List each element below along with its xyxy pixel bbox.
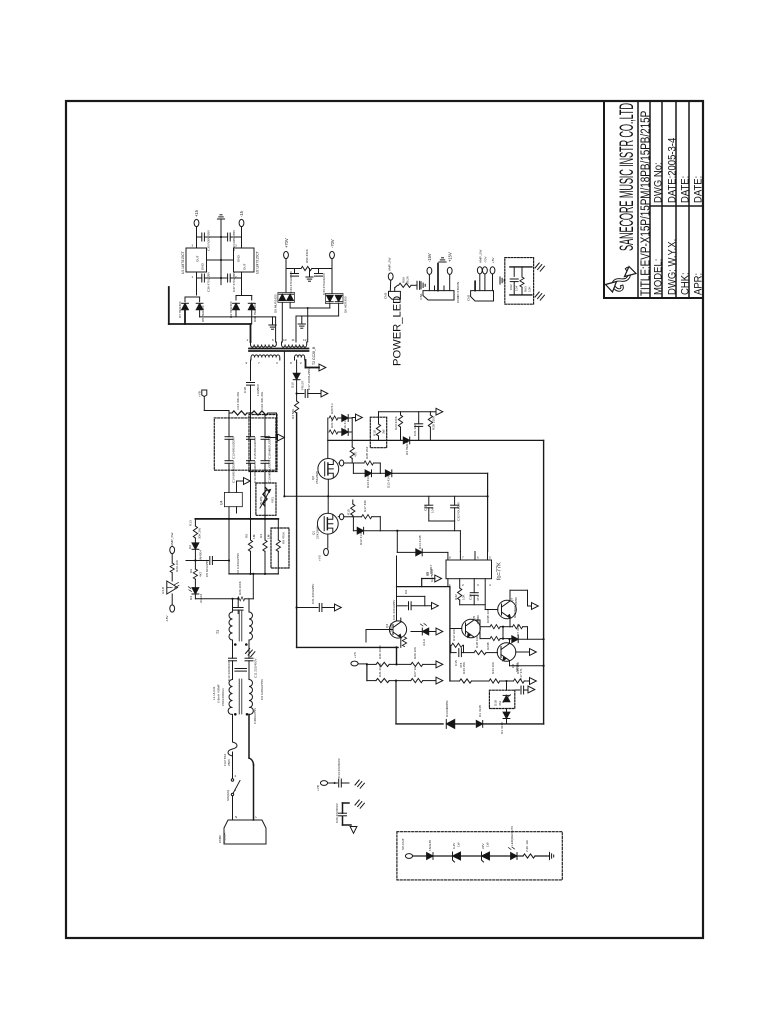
svg-text:0.68U/275V: 0.68U/275V [253, 707, 257, 724]
title block [604, 101, 703, 298]
resistor R40 [523, 854, 535, 858]
logo [606, 267, 637, 293]
wire D14 row [397, 551, 415, 553]
capacitor C21Q [397, 605, 408, 607]
svg-text:fo=77K: fo=77K [497, 562, 503, 580]
ground [550, 852, 554, 859]
svg-text:470: 470 [354, 452, 358, 457]
diode D13 [352, 463, 354, 473]
wire [204, 277, 227, 279]
svg-text:250V: 250V [227, 758, 231, 766]
chain 3 [450, 680, 459, 682]
wire thick secondary [169, 287, 251, 342]
diode D12B [380, 472, 385, 474]
capacitor C21 [418, 412, 420, 424]
svg-text:U1 LM7815CT: U1 LM7815CT [181, 250, 185, 274]
capacitor C9 [235, 669, 246, 672]
wire C17 branch [297, 393, 304, 395]
svg-text:D12 4148: D12 4148 [387, 474, 391, 488]
net arrow [244, 478, 251, 485]
svg-text:R8 470K: R8 470K [282, 531, 286, 544]
svg-text:APR:: APR: [693, 273, 705, 295]
wire Q4 emitter [400, 638, 402, 648]
wire +70 rail [285, 259, 287, 293]
gate node oval [339, 514, 343, 520]
dashed box R8 [271, 528, 289, 568]
svg-text:R26 100K: R26 100K [238, 580, 242, 595]
rectifier D9 [236, 295, 252, 297]
svg-text:C62: C62 [509, 284, 513, 290]
capacitor C17B [515, 689, 520, 691]
net arrow [530, 678, 537, 685]
svg-text:U4: U4 [220, 500, 224, 505]
svg-text:C18 MBSU/200V: C18 MBSU/200V [268, 435, 272, 459]
svg-text:N: N [235, 815, 237, 819]
wire D6 legs [329, 304, 331, 309]
capacitor C62 [510, 279, 518, 282]
ground chassis 2 [355, 800, 364, 808]
net arrow [436, 408, 443, 415]
svg-text:R1B 10K: R1B 10K [475, 635, 479, 648]
resistor R28 [402, 637, 406, 647]
wire pin2 [394, 288, 396, 292]
wire diode bottoms [199, 310, 201, 317]
resistor R50 [301, 266, 312, 270]
capacitor C19 [261, 461, 269, 464]
svg-text:C1B: C1B [243, 387, 247, 393]
svg-text:R16 30K 2W: R16 30K 2W [260, 392, 264, 410]
resistor R12 parallel [450, 645, 452, 652]
svg-text:D9B HER304: D9B HER304 [253, 303, 257, 322]
wire Q7 collector [509, 590, 511, 601]
svg-text:4: 4 [489, 583, 491, 587]
wire D10 chain [296, 360, 298, 373]
wire [204, 236, 221, 238]
svg-text:D7 4148: D7 4148 [516, 624, 520, 636]
svg-text:MODEL:: MODEL: [653, 259, 665, 295]
terminal +70V [483, 267, 488, 274]
terminal +5V [490, 267, 495, 274]
svg-text:DATE:2005-3-4: DATE:2005-3-4 [667, 138, 679, 203]
wire [460, 604, 486, 606]
svg-text:D6 HER303: D6 HER303 [344, 296, 348, 313]
svg-text:CN1: CN1 [419, 293, 423, 299]
resistor R24B [480, 638, 490, 640]
svg-text:R20 5.1: R20 5.1 [330, 403, 334, 414]
svg-text:C21 102: C21 102 [413, 424, 417, 436]
gate node oval [339, 460, 343, 466]
wire [328, 782, 338, 784]
resistor R31 [376, 679, 389, 683]
capacitor C15 [247, 437, 255, 440]
svg-text:3: 3 [477, 583, 479, 587]
svg-text:+VB: +VB [198, 391, 202, 397]
svg-text:2.2K 1W: 2.2K 1W [525, 840, 529, 852]
bus mid [195, 518, 278, 520]
wire [196, 227, 198, 248]
capacitor C13B [339, 779, 342, 787]
resistor R2B [429, 412, 431, 415]
svg-text:C17 1000U/35V: C17 1000U/35V [307, 367, 311, 390]
wire sec to C1B [250, 360, 252, 381]
svg-text:C14 680U/200V: C14 680U/200V [232, 460, 236, 483]
diode D17 [338, 431, 342, 433]
wire U4 pin2 arrow [236, 481, 238, 492]
svg-text:30K 2W: 30K 2W [198, 528, 202, 539]
svg-text:1M: 1M [267, 534, 271, 539]
svg-text:CN50: CN50 [218, 835, 222, 843]
svg-text:56.2K: 56.2K [406, 275, 410, 284]
svg-text:GND: GND [237, 254, 241, 262]
diode D1C [506, 709, 508, 713]
bus drain row [328, 439, 403, 441]
svg-text:-70V: -70V [330, 239, 335, 248]
capacitor C36 [202, 274, 205, 282]
ground [309, 269, 311, 278]
svg-text:CHK:: CHK: [680, 272, 692, 295]
svg-text:R32: R32 [454, 594, 458, 600]
svg-text:D8 HER304: D8 HER304 [201, 305, 205, 322]
svg-text:1N4148: 1N4148 [428, 840, 432, 851]
svg-text:S8550: S8550 [476, 615, 480, 624]
resistor R23B [490, 625, 500, 629]
svg-text:D5 MUR1620: D5 MUR1620 [274, 294, 278, 313]
svg-text:R9: R9 [189, 569, 193, 573]
svg-text:C1B: C1B [424, 505, 428, 511]
T2 top winding B [282, 342, 307, 347]
svg-text:R2B 2K2: R2B 2K2 [365, 446, 369, 459]
svg-text:+VB: +VB [316, 785, 320, 791]
resistor R16 gate pulldown [351, 440, 353, 447]
wire [411, 284, 416, 286]
wire Q4 collector chain [396, 556, 398, 621]
diode D11 [446, 719, 454, 728]
capacitor C1B [425, 505, 433, 508]
wire Q1 gate row [338, 516, 339, 518]
Q2 gate ladder [327, 418, 329, 459]
wire chain rows [358, 663, 367, 665]
svg-text:CN2: CN2 [467, 295, 471, 301]
capacitor C26 [343, 803, 352, 825]
wire U1 gnd to mid [207, 259, 222, 261]
svg-text:2SK2698: 2SK2698 [315, 471, 319, 484]
chain 2 [367, 680, 376, 682]
resistor R34 [489, 679, 500, 683]
svg-text:FID6JA: FID6JA [223, 832, 227, 843]
svg-text:1W: 1W [457, 842, 461, 847]
svg-text:R23B 10K: R23B 10K [486, 608, 490, 623]
resistor R27 [411, 679, 423, 683]
wire [171, 554, 173, 563]
capacitor C21B [319, 604, 322, 612]
svg-text:R4: R4 [259, 534, 263, 538]
wire [232, 715, 234, 743]
wire [232, 752, 234, 778]
wire [196, 272, 198, 295]
diode D10 [293, 373, 300, 379]
svg-text:C33 470U/100V: C33 470U/100V [289, 270, 293, 293]
LED D3 [192, 588, 199, 594]
svg-text:C34 470U/100V: C34 470U/100V [322, 272, 326, 295]
wire TL431 drop [506, 681, 508, 690]
shunt ref D1B [503, 695, 510, 701]
wire [203, 397, 205, 411]
wire cap row [450, 652, 456, 654]
svg-text:R2B 220K: R2B 220K [432, 415, 436, 430]
dashed box TL431 [489, 690, 514, 708]
transistor Q4 [389, 621, 406, 638]
wire gate-A drop to IC pin5 [487, 473, 489, 551]
svg-text:7: 7 [462, 556, 464, 560]
net arrow [532, 603, 539, 610]
terminal -15V [170, 605, 175, 612]
svg-text:D1 4148: D1 4148 [478, 705, 482, 717]
svg-text:C9: C9 [404, 590, 408, 594]
net arrow [432, 602, 439, 609]
T2 core [249, 348, 309, 350]
svg-text:10K: 10K [462, 594, 466, 600]
IC U4 [224, 492, 242, 506]
wire [232, 796, 234, 820]
svg-text:+5V: +5V [491, 256, 495, 263]
net arrow [436, 628, 443, 635]
svg-text:D13 4148: D13 4148 [366, 474, 370, 488]
wire [241, 227, 243, 248]
wire U2 gnd to mid [221, 259, 234, 261]
svg-text:C19 MBSU/200V: C19 MBSU/200V [268, 459, 272, 483]
terminal +15 [194, 219, 199, 226]
wire [296, 380, 298, 401]
dashed box bulk caps [214, 418, 276, 470]
capacitor C33B [473, 579, 475, 593]
svg-text:2SK2698: 2SK2698 [316, 526, 320, 539]
CN2 pins [474, 281, 476, 290]
rail [229, 573, 278, 575]
ground [421, 282, 425, 289]
capacitor C33 [294, 269, 296, 274]
T2 top winding A [251, 342, 277, 347]
svg-text:U3-B: U3-B [161, 587, 165, 594]
svg-text:SANECORE MUSIC INSTR CO.,LTD: SANECORE MUSIC INSTR CO.,LTD [616, 103, 638, 251]
wire opto branch A [397, 586, 450, 588]
svg-text:DATE:: DATE: [680, 176, 692, 203]
svg-text:R23 220K: R23 220K [394, 415, 398, 430]
zener D23 [482, 852, 490, 862]
capacitor C17 [305, 390, 308, 398]
svg-text:2: 2 [235, 774, 237, 778]
diode D16 [338, 417, 342, 419]
resistor R23 [400, 412, 402, 415]
svg-text:U2 LM7915CT: U2 LM7915CT [256, 250, 260, 274]
net arrow [528, 686, 535, 693]
net arrow [356, 414, 363, 421]
resistor R1B [378, 412, 380, 424]
net arrow [436, 661, 443, 668]
svg-text:C13 680U/200V: C13 680U/200V [232, 436, 236, 459]
wire [197, 277, 202, 279]
svg-text:T3: T3 [216, 630, 220, 634]
svg-text:L1 UL#41: L1 UL#41 [212, 686, 216, 700]
dashed box bulk caps 2 [249, 415, 277, 472]
wire cap arrow branch [297, 607, 318, 609]
net arrow [321, 390, 328, 397]
ground [535, 292, 544, 300]
svg-text:C21 220U/25V: C21 220U/25V [392, 599, 396, 620]
CN1 pins [428, 275, 430, 291]
svg-text:TITLE:EVP-X15P/15PM/18PB/15PB/: TITLE:EVP-X15P/15PM/18PB/15PB/215P [639, 110, 652, 296]
svg-text:3: 3 [235, 244, 237, 248]
wire drain bus [296, 413, 298, 647]
svg-text:C15 680U/200V: C15 680U/200V [253, 436, 257, 459]
wire gate-B row [380, 530, 460, 532]
svg-text:DWG No:: DWG No: [653, 162, 665, 203]
svg-text:R33 15K: R33 15K [462, 661, 466, 674]
svg-text:AMP_SW: AMP_SW [170, 533, 174, 546]
resistor R1C [474, 651, 486, 655]
svg-text:R25 5K6: R25 5K6 [513, 606, 517, 618]
svg-text:C5 R0U/25V: C5 R0U/25V [205, 559, 209, 577]
svg-text:12: 12 [303, 338, 307, 342]
diode D2 [192, 543, 199, 549]
resistor R33 [460, 679, 472, 683]
svg-text:+15V: +15V [448, 252, 453, 262]
wire arrow [352, 417, 355, 419]
resistor R26 [238, 597, 245, 601]
wire choke feeds [248, 599, 250, 612]
svg-text:SP-OUT: SP-OUT [401, 838, 405, 850]
resistor R32 [459, 579, 461, 588]
rectifier D9B [248, 303, 255, 309]
svg-text:R17 330: R17 330 [363, 500, 367, 512]
svg-text:U3-A: U3-A [422, 638, 426, 646]
terminal +VB [202, 390, 207, 397]
dashed box R1B [370, 417, 386, 448]
terminal +15V [447, 267, 452, 274]
snubber ladder [379, 411, 437, 413]
svg-text:+VS: +VS [318, 555, 322, 561]
svg-text:C37 470U/35V: C37 470U/35V [232, 271, 236, 292]
svg-text:11: 11 [292, 338, 295, 342]
wire right return [248, 715, 250, 759]
potentiometer VR1 [263, 487, 267, 506]
svg-text:SW(6A): SW(6A) [226, 790, 230, 801]
wire source to +VS [327, 534, 329, 548]
svg-text:9: 9 [246, 361, 248, 365]
connector CN2 [471, 291, 494, 301]
svg-text:R34 10K: R34 10K [491, 661, 495, 674]
wire bracket B [397, 595, 425, 597]
opto diode U3A [400, 618, 402, 622]
svg-text:(5.2B): (5.2B) [259, 497, 263, 505]
svg-text:-15V: -15V [427, 253, 432, 262]
svg-text:4K7: 4K7 [199, 571, 203, 577]
svg-text:C26 222/400V: C26 222/400V [335, 802, 339, 823]
wire Q5 base [450, 628, 462, 630]
svg-text:IN4004: IN4004 [199, 550, 203, 560]
resistor R21 [329, 430, 338, 434]
net arrow [435, 575, 442, 582]
resistor R4 [264, 519, 266, 540]
svg-text:0.8mH 4.8MF: 0.8mH 4.8MF [217, 684, 221, 703]
svg-text:C32 R0U/25V: C32 R0U/25V [457, 501, 461, 521]
regulator U2 [234, 248, 255, 272]
bottom bus [396, 723, 443, 725]
svg-text:OUT: OUT [196, 255, 200, 262]
dual diode D5 [278, 292, 295, 302]
capacitor C13 [225, 437, 233, 440]
wire rail to R26 row [252, 574, 254, 599]
svg-text:104: 104 [431, 508, 435, 513]
wire gate [338, 462, 341, 464]
wire columns [228, 413, 230, 437]
svg-text:R1B: R1B [373, 430, 377, 436]
wire [232, 653, 234, 659]
wire D9B tap [251, 310, 253, 324]
LED D24 [511, 853, 517, 860]
connector CN3 [389, 291, 401, 299]
bus right [543, 440, 545, 724]
svg-text:C11 222/400V: C11 222/400V [254, 658, 258, 678]
diode D12 [352, 517, 354, 531]
svg-text:D13 MR854: D13 MR854 [445, 700, 449, 717]
resistor R5 [250, 519, 252, 540]
svg-text:R12 10K: R12 10K [452, 628, 456, 641]
resistor R3 [295, 401, 299, 413]
junction dots [194, 236, 544, 682]
wire Q6 collector [509, 639, 511, 643]
svg-text:1: 1 [247, 338, 249, 342]
svg-text:10K: 10K [528, 286, 532, 292]
ground [217, 215, 224, 219]
svg-text:R3 56K: R3 56K [291, 408, 295, 419]
svg-text:C15: C15 [454, 660, 458, 666]
capacitor C34 [318, 269, 320, 274]
svg-text:AMP_SW: AMP_SW [388, 258, 392, 271]
svg-text:C17 471: C17 471 [519, 668, 523, 680]
terminal -70V [330, 251, 335, 258]
svg-text:6.2V: 6.2V [452, 842, 456, 849]
wire cap cluster top rail [284, 495, 487, 497]
resistor R26B [411, 662, 423, 666]
svg-text:8: 8 [290, 361, 292, 365]
wire D5 legs [281, 302, 283, 342]
resistor R20 [329, 416, 338, 420]
wire row to IC pin5 [392, 472, 488, 474]
terminal +VB2 [320, 781, 327, 786]
svg-text:2: 2 [300, 361, 302, 365]
wire [197, 236, 202, 238]
capacitor C32 [451, 505, 459, 508]
svg-text:104: 104 [515, 286, 519, 291]
diode D7B [512, 636, 518, 643]
capacitor [417, 281, 420, 289]
svg-text:C21 220U/25V: C21 220U/25V [311, 583, 315, 604]
svg-text:R29 10K: R29 10K [175, 559, 179, 572]
svg-text:C6 0.33U/275V: C6 0.33U/275V [236, 552, 240, 574]
resistor R14 [229, 412, 232, 414]
svg-text:D3: D3 [189, 596, 193, 600]
svg-text:10: 10 [283, 338, 287, 342]
terminal +VS2 [351, 661, 358, 666]
svg-text:R31 200K: R31 200K [378, 662, 382, 677]
svg-text:D9 HER304: D9 HER304 [229, 301, 233, 318]
wire [171, 594, 173, 605]
svg-text:D16 4148: D16 4148 [343, 417, 347, 431]
svg-text:R15: R15 [347, 509, 351, 515]
capacitor C1B [247, 383, 255, 386]
net arrow down [350, 827, 357, 834]
svg-text:C13 222/400V: C13 222/400V [337, 757, 341, 778]
